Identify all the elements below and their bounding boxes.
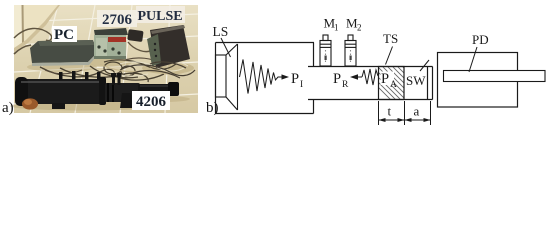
- dimension a: [405, 104, 431, 123]
- floor tile grout lines: [14, 5, 198, 113]
- tube stand bracket: [52, 93, 133, 109]
- label SW with pointer: [406, 60, 429, 88]
- rigid wall end lines: [428, 67, 433, 100]
- svg-text:A: A: [390, 80, 397, 90]
- piston rod: [444, 71, 546, 82]
- svg-text:PD: PD: [472, 32, 489, 47]
- svg-text:P: P: [333, 71, 341, 87]
- svg-text:4206: 4206: [136, 94, 167, 110]
- loudspeaker LS symbol: [216, 44, 238, 110]
- label PD with pointer: [469, 32, 489, 72]
- svg-text:2706: 2706: [102, 12, 133, 28]
- svg-text:R: R: [342, 80, 349, 90]
- label 4206: [132, 91, 170, 110]
- impedance tube 4206 main body: [15, 77, 140, 106]
- svg-text:t: t: [388, 104, 392, 119]
- shadow under devices: [27, 57, 194, 74]
- shadow under tube: [10, 102, 160, 111]
- PULSE front-end device: [147, 25, 190, 68]
- microphone M2: [345, 35, 356, 66]
- reflected wave arrow: [352, 76, 362, 78]
- copper foot left of tube: [22, 98, 38, 109]
- svg-text:1: 1: [334, 23, 339, 33]
- label TS with pointer: [383, 31, 398, 65]
- photo panel a) background floor: [14, 5, 198, 113]
- label LS with pointer: [213, 24, 231, 57]
- label P_I: [291, 71, 303, 90]
- arrowhead P_I: [282, 74, 290, 79]
- label 2706: [97, 10, 137, 28]
- label PULSE: [136, 6, 185, 24]
- wall corner top-left of photo: [14, 5, 60, 52]
- loudspeaker enclosure box: [216, 43, 315, 114]
- amplifier 2706 device: [94, 28, 128, 59]
- microphone M1: [320, 35, 331, 66]
- svg-text:PULSE: PULSE: [137, 9, 182, 24]
- dimension extension lines: [379, 101, 431, 125]
- dimension t: [379, 104, 405, 123]
- adapter block right of 2706: [127, 29, 143, 42]
- cables bundle below laptop: [40, 60, 176, 82]
- microphone stubs on tube: [59, 71, 122, 85]
- duct tube walls: [308, 67, 433, 100]
- piston device PD box: [438, 53, 518, 108]
- tube right thin extension rod: [138, 82, 179, 96]
- test sample TS hatched strip: [355, 64, 440, 104]
- label P_R: [333, 71, 349, 90]
- svg-text:2: 2: [357, 23, 362, 33]
- label M1: [324, 16, 339, 33]
- incident wave zigzag: [240, 60, 288, 94]
- label M2: [346, 16, 362, 33]
- svg-text:TS: TS: [383, 31, 398, 46]
- cables right of tube: [120, 62, 195, 78]
- svg-text:SW: SW: [406, 73, 426, 88]
- laptop PC: [30, 40, 96, 66]
- cables upper area: [14, 28, 152, 54]
- label PC: [52, 26, 77, 43]
- svg-text:P: P: [291, 71, 299, 87]
- reflected wave zigzag: [362, 69, 378, 85]
- svg-text:P: P: [381, 71, 389, 87]
- svg-text:I: I: [300, 80, 303, 90]
- svg-text:a): a): [2, 100, 14, 116]
- label P_A inside sample: [381, 71, 398, 90]
- svg-text:PC: PC: [54, 27, 74, 43]
- svg-text:a: a: [414, 104, 420, 119]
- svg-text:LS: LS: [213, 24, 229, 39]
